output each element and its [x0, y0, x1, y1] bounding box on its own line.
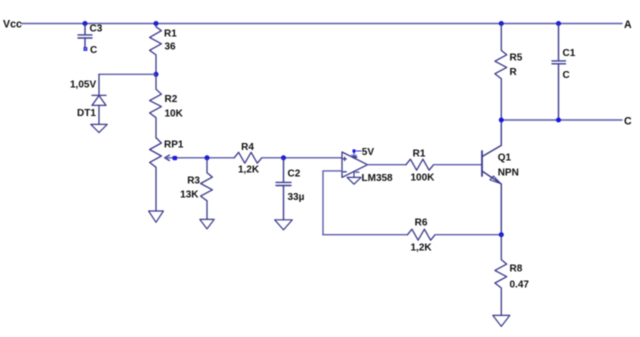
- svg-text:R6: R6: [415, 218, 428, 229]
- svg-text:DT1: DT1: [77, 108, 96, 119]
- resistor R3: [201, 158, 213, 220]
- svg-text:R1: R1: [164, 28, 177, 39]
- wire feedback bottom: [323, 234, 408, 236]
- junction collector node: [499, 118, 504, 123]
- svg-text:LM358: LM358: [362, 173, 394, 184]
- svg-text:1,2K: 1,2K: [411, 243, 433, 254]
- svg-text:C1: C1: [563, 48, 576, 59]
- wire R6 to emitter node: [435, 234, 501, 236]
- junction C3 tap: [83, 21, 88, 26]
- svg-text:36: 36: [165, 41, 177, 52]
- transistor Q1: [482, 120, 501, 235]
- junction C1 bottom: [556, 118, 561, 123]
- ground below DT1: [91, 124, 107, 132]
- svg-text:100K: 100K: [411, 172, 436, 183]
- diode DT1: [92, 74, 106, 124]
- svg-text:Vcc: Vcc: [3, 19, 22, 31]
- resistor R6: [408, 229, 436, 240]
- resistor R2: [150, 74, 162, 138]
- svg-text:A: A: [624, 19, 632, 31]
- svg-text:NPN: NPN: [498, 167, 519, 178]
- svg-text:0.47: 0.47: [510, 280, 530, 291]
- op-amp U1 LM358: [342, 152, 368, 177]
- potentiometer RP1: [150, 138, 162, 211]
- junction R5 tap: [499, 21, 504, 26]
- svg-text:C3: C3: [90, 24, 103, 35]
- pin terminal C of C3: [84, 47, 88, 51]
- svg-text:R1: R1: [413, 149, 426, 160]
- junction C2 tap: [281, 155, 286, 160]
- svg-text:R3: R3: [187, 175, 200, 186]
- junction DT1 branch: [154, 72, 159, 77]
- ground below R8: [493, 315, 510, 326]
- svg-text:R5: R5: [510, 53, 523, 64]
- ground below C2: [275, 220, 293, 230]
- resistor R8: [495, 235, 507, 316]
- junction R1 tap: [154, 21, 159, 26]
- junction emitter node: [499, 232, 504, 237]
- wire to DT1: [99, 73, 156, 75]
- wire inverting input: [323, 171, 342, 235]
- resistor R4: [234, 152, 262, 163]
- capacitor C2: [276, 158, 291, 220]
- wire op-amp output: [368, 164, 407, 166]
- power pin 5V of op-amp: [352, 149, 361, 158]
- wire wiper to R4: [165, 157, 235, 159]
- svg-text:Q1: Q1: [498, 152, 512, 163]
- svg-text:C2: C2: [288, 169, 301, 180]
- svg-text:1,2K: 1,2K: [238, 164, 260, 175]
- svg-text:C: C: [563, 70, 570, 81]
- svg-text:10K: 10K: [165, 109, 184, 120]
- svg-text:R2: R2: [165, 94, 178, 105]
- svg-text:R4: R4: [241, 142, 254, 153]
- wire Vcc rail: [22, 23, 623, 25]
- wire collector rail to C: [501, 119, 622, 121]
- svg-text:13K: 13K: [180, 189, 199, 200]
- svg-text:R8: R8: [510, 264, 523, 275]
- junction R3 tap: [205, 155, 210, 160]
- resistor R5: [495, 24, 507, 121]
- ground below R3: [200, 219, 214, 229]
- svg-text:1,05V: 1,05V: [70, 80, 96, 91]
- capacitor C1: [552, 24, 566, 121]
- svg-text:5V: 5V: [362, 147, 375, 158]
- svg-text:R: R: [510, 67, 518, 78]
- wire R4 to op-amp: [262, 157, 342, 159]
- resistor R1: [150, 24, 162, 75]
- junction wiper pin: [173, 156, 178, 160]
- svg-text:RP1: RP1: [164, 140, 184, 151]
- ground below RP1: [149, 211, 164, 222]
- svg-text:C: C: [90, 45, 97, 56]
- ground pin of op-amp: [347, 171, 361, 184]
- resistor R1 100K: [406, 159, 434, 170]
- svg-text:C: C: [624, 115, 632, 127]
- svg-text:33µ: 33µ: [288, 192, 305, 203]
- junction C1 tap: [556, 21, 561, 26]
- wire R1 100K to Q1 base: [434, 164, 482, 166]
- wiper arrow of RP1: [165, 155, 170, 160]
- capacitor C3: [78, 24, 92, 48]
